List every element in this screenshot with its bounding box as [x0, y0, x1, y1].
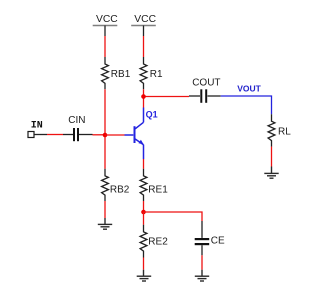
- resistor RE1: [140, 169, 168, 201]
- svg-text:R1: R1: [150, 69, 163, 80]
- net VOUT wire: [221, 96, 272, 114]
- svg-text:RL: RL: [278, 127, 291, 138]
- node collector junction: [141, 94, 146, 99]
- capacitor CIN: [63, 115, 93, 141]
- svg-text:VCC: VCC: [134, 14, 156, 25]
- resistor RL: [268, 114, 291, 146]
- wire collector node to COUT: [144, 96, 190, 98]
- wire RB1 to base node: [104, 89, 106, 135]
- wire base node to Q1 base: [105, 134, 125, 136]
- svg-text:CIN: CIN: [68, 115, 85, 126]
- svg-text:Q1: Q1: [146, 110, 158, 120]
- node base junction: [103, 133, 108, 138]
- wire base node to RB2: [104, 135, 106, 169]
- svg-text:RB2: RB2: [110, 185, 130, 196]
- power symbol VCC (left rail): [93, 14, 119, 36]
- wire CE to ground: [201, 255, 203, 269]
- transistor Q1: [125, 108, 144, 160]
- wire IN to CIN: [47, 134, 63, 136]
- wire RE2 to ground: [143, 258, 145, 270]
- ground (under RL): [264, 167, 278, 179]
- resistor RB1: [102, 57, 131, 89]
- svg-text:IN: IN: [31, 121, 43, 132]
- svg-text:RE2: RE2: [148, 236, 168, 247]
- wire collector node down to Q1 collector: [143, 97, 145, 108]
- svg-text:RE1: RE1: [148, 185, 168, 196]
- resistor RB2: [102, 169, 130, 201]
- wire emitter node to RE2: [143, 212, 145, 225]
- ground (under RE2): [137, 270, 152, 281]
- ground (under CE): [195, 270, 209, 281]
- svg-text:RB1: RB1: [111, 69, 131, 80]
- svg-text:CE: CE: [211, 236, 225, 247]
- resistor R1: [140, 57, 163, 89]
- wire VCC1 to RB1: [104, 36, 106, 57]
- power symbol VCC (right rail): [131, 14, 156, 36]
- ground (under RB2): [98, 218, 112, 229]
- capacitor COUT: [189, 78, 221, 103]
- wire VCC2 to R1: [143, 36, 145, 57]
- wire Q1 emitter to RE1: [143, 159, 145, 169]
- wire RB2 to ground: [104, 201, 106, 218]
- wire emitter node to CE: [144, 212, 203, 221]
- wire R1 to collector node: [143, 89, 145, 96]
- node emitter junction: [141, 210, 146, 215]
- capacitor CE: [195, 221, 225, 255]
- wire RL to ground: [271, 147, 273, 167]
- svg-text:VCC: VCC: [96, 14, 118, 25]
- wire CIN to base node: [93, 134, 106, 136]
- resistor RE2: [140, 225, 168, 258]
- port IN: [28, 121, 47, 138]
- wire RE1 to emitter node: [143, 201, 145, 212]
- svg-text:COUT: COUT: [192, 78, 220, 89]
- svg-text:VOUT: VOUT: [237, 84, 261, 94]
